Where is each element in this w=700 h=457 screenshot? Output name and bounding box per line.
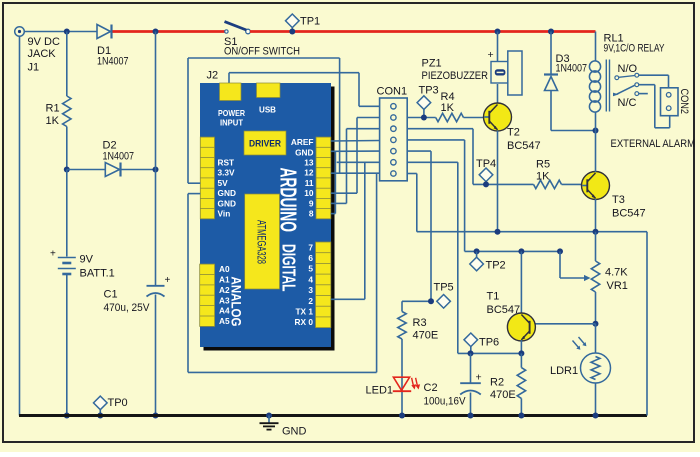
svg-text:C2: C2: [424, 382, 438, 394]
svg-text:ON/OFF SWITCH: ON/OFF SWITCH: [224, 46, 300, 58]
svg-text:10: 10: [304, 188, 314, 198]
relay contacts N/O N/C: [613, 63, 639, 109]
Arduino driver chip: [244, 131, 286, 155]
wire CON1 pin6 to TP6 row: [407, 162, 521, 353]
svg-text:TP2: TP2: [486, 260, 506, 272]
svg-text:3: 3: [308, 285, 313, 295]
svg-text:ARDUINO: ARDUINO: [276, 168, 302, 233]
svg-text:1K: 1K: [441, 102, 455, 114]
resistor R3 470E: [398, 301, 438, 341]
svg-text:C1: C1: [104, 289, 118, 301]
svg-text:TP3: TP3: [419, 85, 439, 97]
transistor T1 BC547: [487, 291, 536, 342]
wire CON1 pin7 row: [331, 172, 380, 174]
Arduino board body: [200, 83, 331, 347]
wire Arduino GND right to CON1 pin5 with pin8 branch: [331, 151, 380, 214]
svg-text:R5: R5: [536, 159, 550, 171]
wire LDR to ground rail: [595, 383, 597, 416]
node D2 cathode junction: [153, 167, 159, 173]
ground GND symbol: [260, 413, 307, 438]
svg-text:4.7K: 4.7K: [605, 267, 628, 279]
svg-text:GND: GND: [218, 198, 236, 208]
svg-text:DRIVER: DRIVER: [249, 139, 281, 149]
svg-text:A3: A3: [219, 295, 230, 305]
svg-text:J1: J1: [28, 62, 40, 74]
wire Arduino pin9 to CON1 pin3: [331, 129, 380, 204]
svg-text:2: 2: [308, 296, 313, 306]
node T1 emitter / R2 junction: [518, 350, 524, 356]
wire CON1 pin5 to TP5: [402, 151, 431, 301]
node T3 emitter / VR1 ground junction: [593, 229, 599, 235]
wire rail to D2 cathode: [155, 32, 157, 170]
svg-text:9V,1C/O RELAY: 9V,1C/O RELAY: [604, 43, 665, 55]
svg-text:470E: 470E: [413, 330, 439, 342]
wire LDR top: [595, 324, 597, 353]
test point TP2: [470, 248, 506, 271]
svg-text:5: 5: [308, 264, 313, 274]
node C1 ground: [153, 413, 159, 419]
svg-text:1K: 1K: [46, 115, 60, 127]
svg-text:ANALOG: ANALOG: [229, 277, 244, 327]
svg-text:TP5: TP5: [434, 282, 454, 294]
svg-text:470u, 25V: 470u, 25V: [104, 302, 151, 314]
wire CON1 pin7 ground row: [407, 174, 647, 416]
connector J1 9V DC jack: [15, 27, 60, 74]
svg-text:CON2: CON2: [678, 89, 690, 115]
switch S1 ON/OFF: [224, 22, 300, 58]
wire relay common to CON2 bottom: [639, 85, 670, 128]
test point TP1: [286, 14, 321, 35]
svg-text:POWER: POWER: [218, 108, 245, 118]
svg-text:3.3V: 3.3V: [218, 168, 236, 178]
svg-text:R3: R3: [413, 317, 427, 329]
wire relay N/C stub: [639, 93, 648, 95]
svg-text:+: +: [50, 249, 56, 260]
svg-text:N/O: N/O: [618, 63, 638, 75]
svg-text:PZ1: PZ1: [422, 58, 442, 70]
svg-text:T1: T1: [487, 291, 500, 303]
svg-text:9V DC: 9V DC: [28, 36, 60, 48]
svg-text:1K: 1K: [536, 171, 550, 183]
wire +V red rail right segment: [250, 30, 596, 33]
Arduino left analog pin header: [200, 264, 215, 326]
svg-text:100u,16V: 100u,16V: [424, 396, 467, 408]
LDR LDR1: [550, 337, 611, 383]
svg-text:A4: A4: [219, 306, 230, 316]
svg-text:DIGITAL: DIGITAL: [279, 244, 299, 292]
wire R5 to T3 base: [562, 183, 583, 185]
svg-text:BATT.1: BATT.1: [80, 268, 115, 280]
svg-text:TP6: TP6: [479, 337, 499, 349]
node T2 emitter ground junction: [495, 229, 501, 235]
svg-text:GND: GND: [282, 426, 307, 438]
wire Arduino digital pin2 to CON1 pin6: [331, 162, 380, 299]
resistor R1 1K: [46, 32, 72, 128]
node T1 collector junction: [518, 248, 524, 254]
svg-text:+: +: [488, 49, 494, 61]
node D2 anode junction: [64, 167, 70, 173]
svg-text:AREF: AREF: [291, 137, 314, 147]
Arduino power input jack block: [220, 83, 242, 101]
svg-text:TP0: TP0: [108, 397, 128, 409]
wire +V red rail left segment: [113, 30, 226, 33]
svg-text:RX 0: RX 0: [295, 317, 314, 327]
wire Arduino pin10 to CON1 pin2: [331, 118, 380, 194]
wire jack to D1: [24, 31, 97, 33]
connector CON2 external alarm: [661, 88, 679, 116]
connector J2 label and bracket wire to CON1 pin1: [207, 70, 380, 107]
node relay/T3 collector junction: [593, 128, 599, 134]
wire R1 to D2 node: [66, 127, 68, 170]
svg-text:1N4007: 1N4007: [97, 56, 129, 68]
piezo buzzer PZ1: [422, 49, 523, 95]
svg-text:N/C: N/C: [618, 97, 637, 109]
diode D1 1N4007: [97, 25, 129, 68]
wire Arduino GND around board to CON1 pin7: [188, 173, 377, 372]
transistor T3 BC547: [582, 172, 646, 220]
wire VR1 bottom to T1 base node: [595, 292, 597, 324]
wire R3 to LED1: [401, 339, 403, 416]
svg-text:A2: A2: [219, 285, 230, 295]
Arduino left power pin header: [200, 137, 214, 219]
svg-text:BC547: BC547: [507, 140, 541, 152]
svg-text:Vin: Vin: [218, 209, 231, 219]
resistor R4 1K: [436, 91, 464, 122]
resistor R2 470E: [490, 353, 526, 418]
svg-text:1N4007: 1N4007: [556, 63, 588, 75]
svg-text:9: 9: [309, 198, 314, 208]
svg-text:LED1: LED1: [366, 385, 394, 397]
test point TP0: [94, 396, 128, 418]
svg-text:A0: A0: [219, 264, 230, 274]
transistor T2 BC547: [484, 103, 541, 152]
svg-text:5V: 5V: [218, 178, 229, 188]
svg-text:12: 12: [304, 168, 314, 178]
svg-text:VR1: VR1: [607, 280, 628, 292]
wire T2 emitter to ground row: [497, 131, 499, 232]
diode D2 1N4007: [67, 140, 156, 177]
wire CON1 pin2 to R4: [407, 117, 436, 119]
svg-text:JACK: JACK: [28, 48, 57, 60]
wire CON1 pin3 to TP4: [407, 129, 533, 185]
wire T3 emitter to ground row: [595, 199, 597, 232]
wire piezo feed from rail: [495, 29, 501, 35]
Arduino board U-board shadow: [204, 87, 335, 351]
svg-text:TX 1: TX 1: [295, 306, 313, 316]
node battery ground: [64, 413, 70, 419]
resistor R5 1K: [534, 159, 562, 189]
svg-text:13: 13: [304, 158, 314, 168]
svg-text:RST: RST: [218, 158, 235, 168]
wire T1 base row: [530, 323, 596, 325]
Arduino ATMEGA328 chip: [245, 194, 280, 289]
node T1 base / LDR junction: [593, 321, 599, 327]
svg-text:BC547: BC547: [612, 208, 646, 220]
node LED1 ground: [399, 413, 405, 419]
connector CON1: [377, 86, 408, 181]
svg-text:470E: 470E: [490, 389, 516, 401]
svg-text:EXTERNAL ALARM: EXTERNAL ALARM: [611, 138, 696, 150]
svg-text:R1: R1: [46, 103, 60, 115]
diode D3 1N4007: [544, 29, 596, 131]
svg-text:R2: R2: [490, 377, 504, 389]
potentiometer VR1 4.7K: [557, 232, 628, 292]
svg-text:LDR1: LDR1: [550, 365, 578, 377]
LED LED1: [366, 377, 421, 396]
test point TP5: [428, 282, 454, 309]
wire T1 emitter: [520, 340, 522, 353]
svg-text:7: 7: [308, 242, 313, 252]
svg-text:GND: GND: [218, 188, 236, 198]
wire jack sleeve to ground rail: [19, 36, 21, 415]
svg-text:A1: A1: [219, 275, 230, 285]
svg-text:6: 6: [308, 253, 313, 263]
wire Arduino 5V to pin12 long route: [188, 58, 340, 183]
test point TP3: [417, 85, 439, 121]
svg-text:+: +: [165, 275, 171, 286]
svg-text:4: 4: [308, 274, 313, 284]
svg-text:GND: GND: [295, 147, 313, 157]
svg-text:CON1: CON1: [377, 86, 408, 98]
wire ground rail: [19, 414, 647, 417]
svg-text:J2: J2: [207, 70, 219, 82]
Arduino right upper pin header: [316, 137, 331, 219]
wire R4 to T2 base: [464, 117, 485, 119]
node rail/R1-column junction: [153, 29, 159, 35]
test point TP4: [476, 158, 496, 187]
capacitor C2 100u 16V: [424, 353, 482, 418]
relay RL1 9V 1C/O coil: [589, 32, 665, 131]
wire Arduino AREF to CON1 pin4: [331, 140, 380, 143]
wire CON1 pin4 to sensor row: [407, 140, 560, 252]
svg-text:TP1: TP1: [300, 16, 320, 28]
wire relay N/O to CON2 top: [639, 75, 669, 88]
svg-text:+: +: [476, 372, 482, 384]
svg-text:9V: 9V: [80, 254, 94, 266]
svg-text:8: 8: [309, 209, 314, 219]
svg-text:1N4007: 1N4007: [103, 151, 135, 163]
node jack/R1 junction: [64, 29, 70, 35]
capacitor C1 470u 25V: [104, 170, 171, 416]
battery BATT.1 9V: [50, 170, 115, 416]
svg-text:BC547: BC547: [487, 304, 521, 316]
svg-text:A5: A5: [219, 316, 230, 326]
wire T3 collector to relay: [595, 131, 597, 173]
svg-text:USB: USB: [259, 105, 276, 115]
wire piezo to T2 collector: [497, 84, 499, 104]
svg-text:INPUT: INPUT: [220, 118, 244, 128]
svg-text:T2: T2: [507, 127, 520, 139]
Arduino USB block: [257, 83, 281, 98]
svg-text:ATMEGA328: ATMEGA328: [255, 220, 269, 264]
Arduino right digital pin header: [316, 242, 331, 328]
wire T1 collector: [520, 251, 522, 314]
svg-text:11: 11: [305, 178, 314, 188]
svg-text:PIEZOBUZZER: PIEZOBUZZER: [422, 70, 489, 82]
test point TP6: [464, 333, 499, 356]
svg-text:T3: T3: [612, 194, 625, 206]
